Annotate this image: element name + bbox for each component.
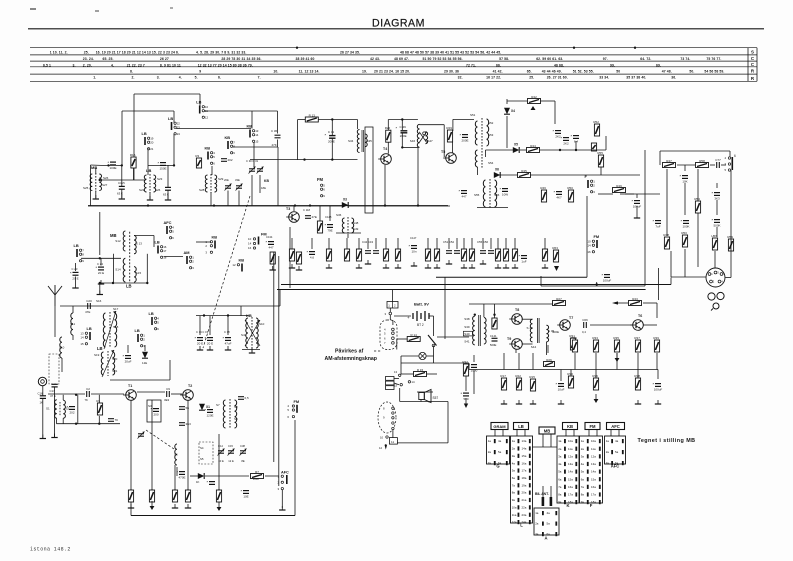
- ground: [495, 264, 501, 268]
- label box S40: [463, 331, 472, 336]
- coil S1: [55, 400, 57, 419]
- junction: [417, 204, 419, 206]
- wire: [176, 128, 251, 130]
- junction: [474, 314, 476, 316]
- svg-text:6a: 6a: [512, 476, 516, 480]
- svg-text:100uF: 100uF: [603, 279, 612, 283]
- wire: [187, 400, 189, 490]
- svg-text:5E: 5E: [186, 406, 190, 410]
- wire: [524, 430, 526, 437]
- svg-text:S9: S9: [234, 417, 238, 421]
- svg-text:C 118: C 118: [303, 208, 310, 212]
- resistor R11: [296, 252, 301, 264]
- resistor R21b: [317, 221, 322, 233]
- wire: [402, 146, 418, 148]
- diode X7: [142, 352, 148, 358]
- wire: [636, 206, 638, 214]
- svg-text:3a: 3a: [558, 454, 562, 458]
- svg-text:2a: 2a: [581, 447, 585, 451]
- wire: [656, 353, 658, 370]
- capacitor C160: [561, 136, 570, 141]
- svg-text:16: 16: [248, 246, 252, 250]
- wire: [658, 268, 660, 300]
- svg-text:5a: 5a: [615, 450, 619, 454]
- svg-text:447: 447: [268, 246, 273, 250]
- switch table header MB: [539, 427, 555, 434]
- svg-text:4. 5. 28. 29 30. 7 8 9. 31 32: 4. 5. 28. 29 30. 7 8 9. 31 32 33.: [196, 51, 246, 55]
- wire: [637, 353, 639, 370]
- svg-text:R3: R3: [195, 154, 199, 158]
- svg-text:LB: LB: [168, 116, 173, 121]
- wire: [54, 306, 56, 337]
- svg-text:R46: R46: [540, 186, 546, 190]
- ground: [383, 264, 389, 268]
- wire: [468, 363, 470, 370]
- svg-text:S27: S27: [102, 183, 108, 187]
- transistor T1: [123, 390, 136, 401]
- svg-text:99.: 99.: [610, 63, 615, 67]
- svg-text:54 56 58 59.: 54 56 58 59.: [704, 70, 724, 74]
- wire: [210, 192, 212, 206]
- svg-text:1a: 1a: [606, 439, 610, 443]
- wire: [730, 170, 732, 278]
- wire: [164, 256, 184, 258]
- junction: [173, 164, 175, 166]
- wire: [48, 393, 85, 395]
- capacitor C9: [167, 391, 170, 397]
- svg-text:2000: 2000: [253, 477, 259, 481]
- svg-text:C147: C147: [410, 236, 417, 240]
- svg-text:R50: R50: [567, 186, 573, 190]
- wire: [238, 191, 240, 206]
- pilot lamp: [419, 352, 426, 359]
- switch LB: [155, 240, 167, 260]
- ground: [434, 264, 440, 268]
- wire: [253, 142, 255, 167]
- svg-text:4a: 4a: [512, 461, 516, 465]
- capacitor C123: [70, 270, 79, 275]
- wire: [61, 358, 63, 372]
- svg-text:1a: 1a: [488, 439, 492, 443]
- wire: [81, 257, 121, 259]
- wire: [99, 283, 101, 294]
- wire: [251, 348, 253, 352]
- wire: [399, 388, 401, 402]
- coil: [99, 174, 101, 191]
- svg-text:G: G: [496, 464, 499, 469]
- svg-text:2a: 2a: [535, 522, 539, 526]
- wire: [54, 387, 56, 438]
- wire: [173, 134, 175, 165]
- resistor R38: [635, 378, 640, 390]
- resistor R3: [196, 158, 201, 168]
- svg-text:5a: 5a: [547, 522, 551, 526]
- wire: [196, 241, 211, 243]
- resistor R37: [635, 340, 640, 352]
- switch block L: [511, 436, 533, 523]
- svg-text:9a: 9a: [558, 500, 562, 504]
- wire: [542, 434, 544, 447]
- capacitor C52: [454, 251, 460, 254]
- svg-text:8. 9 81 10 11: 8. 9 81 10 11: [160, 63, 181, 67]
- svg-text:S25: S25: [83, 186, 89, 190]
- svg-text:16. 19 20 21 17 18 20 21 12 14: 16. 19 20 21 17 18 20 21 12 14 13 15. 22…: [96, 51, 179, 55]
- svg-text:S40: S40: [464, 332, 470, 336]
- svg-text:2.: 2.: [132, 76, 135, 80]
- coil: [144, 175, 146, 192]
- capacitor C51: [446, 251, 452, 254]
- svg-text:S54: S54: [488, 161, 494, 165]
- wire: [520, 149, 526, 151]
- svg-text:10a: 10a: [512, 505, 517, 509]
- junction: [227, 314, 229, 316]
- trimmer capacitor C130: [249, 167, 256, 174]
- junction: [384, 204, 386, 206]
- svg-text:C2: C2: [86, 387, 90, 391]
- wire: [657, 370, 659, 380]
- svg-text:S11: S11: [70, 322, 75, 326]
- wire: [397, 238, 399, 249]
- svg-text:T4: T4: [383, 147, 387, 151]
- ground: [469, 264, 475, 268]
- svg-text:S7: S7: [216, 403, 220, 407]
- resistor R45: [518, 173, 531, 178]
- switch KB: [205, 146, 216, 166]
- svg-text:79E: 79E: [327, 229, 332, 233]
- wire: [384, 165, 386, 206]
- svg-text:16a: 16a: [591, 485, 596, 489]
- resistor R21: [572, 340, 577, 352]
- svg-text:15: 15: [255, 140, 259, 144]
- svg-text:X4: X4: [511, 109, 515, 113]
- resistor R16: [131, 157, 136, 168]
- switch block AFC: [605, 436, 626, 464]
- svg-text:S55: S55: [474, 193, 480, 197]
- wire: [515, 349, 517, 353]
- svg-text:47uF: 47uF: [225, 342, 232, 346]
- ruling line: [30, 54, 757, 56]
- capacitor C77: [717, 162, 720, 168]
- wire: [595, 370, 597, 379]
- ground: [98, 280, 104, 284]
- svg-text:10W: 10W: [502, 193, 508, 197]
- contact 10: [386, 436, 388, 438]
- resistor R12: [512, 249, 517, 261]
- capacitor C124: [96, 265, 105, 270]
- wire: [514, 238, 516, 249]
- resistor R2: [128, 490, 133, 502]
- wire: [199, 94, 201, 106]
- capacitor C56: [488, 251, 494, 254]
- arrow: [554, 266, 559, 271]
- wire: [452, 119, 454, 131]
- svg-text:C 38: C 38: [224, 330, 230, 334]
- capacitor C176: [712, 218, 721, 223]
- svg-text:65. 25.: 65. 25.: [103, 57, 114, 61]
- wire: [400, 356, 402, 363]
- svg-text:73 74.: 73 74.: [680, 57, 690, 61]
- wire: [448, 238, 450, 249]
- coil S14: [123, 258, 125, 282]
- capacitor C2: [87, 391, 90, 397]
- junction: [401, 118, 403, 120]
- capacitor C19: [241, 489, 250, 494]
- coil S2: [63, 400, 65, 418]
- svg-text:7a: 7a: [581, 485, 585, 489]
- wire: [714, 251, 716, 268]
- resistor R10: [270, 252, 275, 264]
- svg-text:S46: S46: [410, 139, 416, 143]
- ground: [395, 264, 401, 268]
- svg-text:S56: S56: [494, 193, 500, 197]
- junction: [75, 423, 77, 425]
- transistor T8: [509, 314, 522, 325]
- wire: [600, 167, 602, 175]
- coil: [256, 318, 258, 348]
- wire: [121, 165, 123, 186]
- resistor R19: [344, 249, 349, 261]
- svg-text:S23: S23: [157, 177, 163, 181]
- coil S46: [417, 124, 419, 147]
- jack socket: [717, 292, 724, 299]
- svg-text:7K: 7K: [85, 398, 89, 402]
- svg-text:C 36: C 36: [271, 129, 277, 133]
- svg-text:KB: KB: [264, 179, 269, 183]
- tick: [634, 47, 636, 49]
- svg-text:5a: 5a: [581, 470, 585, 474]
- capacitor C85: [108, 160, 117, 165]
- svg-text:20 21 23 24. 16 15 20.: 20 21 23 24. 16 15 20.: [374, 70, 410, 74]
- svg-text:T9: T9: [507, 337, 511, 341]
- wire: [453, 118, 474, 120]
- dashed link: [203, 196, 250, 348]
- svg-text:200E: 200E: [400, 134, 407, 138]
- wire: [90, 165, 92, 206]
- resistor R25: [383, 249, 388, 261]
- capacitor C154: [459, 189, 468, 194]
- wire: [444, 277, 446, 339]
- detector transformer S51 S52 S53 S54: [475, 118, 488, 168]
- ground: [289, 264, 295, 268]
- svg-text:R7: R7: [255, 470, 259, 474]
- svg-text:S47: S47: [427, 139, 433, 143]
- switch KB: [205, 235, 217, 255]
- wire: [242, 349, 260, 351]
- junction: [107, 164, 109, 166]
- wire: [127, 345, 129, 353]
- svg-text:S 13: S 13: [136, 242, 143, 246]
- coil: [113, 352, 115, 375]
- svg-text:28 29 78 30 31 34 35 36.: 28 29 78 30 31 34 35 36.: [221, 57, 261, 61]
- wire: [347, 234, 349, 238]
- ground: [249, 349, 255, 353]
- wire: [506, 116, 508, 148]
- svg-text:AM: AM: [184, 250, 190, 255]
- coil S35: [365, 134, 367, 147]
- svg-text:R50: R50: [681, 231, 687, 235]
- wire: [146, 254, 148, 283]
- svg-text:S26: S26: [155, 188, 161, 192]
- svg-text:C 23: C 23: [72, 267, 78, 271]
- coil: [495, 180, 497, 207]
- svg-text:22a: 22a: [522, 505, 527, 509]
- svg-text:C20: C20: [86, 299, 92, 303]
- svg-text:9a: 9a: [581, 500, 585, 504]
- wire: [278, 256, 280, 486]
- wire: [670, 251, 672, 277]
- wire: [389, 315, 391, 320]
- switch LB: [74, 243, 85, 263]
- svg-text:1 10. 11. 2.: 1 10. 11. 2.: [50, 51, 68, 55]
- capacitor C70: [469, 363, 478, 368]
- svg-text:R29: R29: [446, 126, 452, 130]
- svg-text:47 48.: 47 48.: [662, 70, 672, 74]
- wire: [98, 395, 100, 403]
- wire: [516, 430, 518, 437]
- switch table header FM: [585, 423, 600, 430]
- svg-text:6.: 6.: [218, 76, 221, 80]
- svg-text:LB: LB: [126, 284, 132, 289]
- svg-text:LB: LB: [518, 424, 524, 429]
- coil: [246, 318, 248, 348]
- wire: [542, 486, 544, 497]
- wire: [637, 370, 639, 379]
- resistor R32: [463, 364, 468, 376]
- resistor R55: [598, 155, 603, 167]
- svg-text:2a: 2a: [558, 447, 562, 451]
- transistor T9: [509, 339, 522, 350]
- resistor R3b: [149, 490, 154, 502]
- ground arrow: [594, 394, 599, 403]
- ground: [461, 264, 467, 268]
- wire: [336, 232, 361, 234]
- wire: [277, 147, 279, 206]
- wire: [273, 252, 275, 462]
- coil: [223, 400, 225, 428]
- capacitor C147: [409, 244, 418, 249]
- svg-text:7a: 7a: [512, 483, 516, 487]
- svg-text:4a: 4a: [547, 511, 551, 515]
- svg-text:500E: 500E: [490, 343, 497, 347]
- svg-text:38 39 41 60: 38 39 41 60: [296, 57, 315, 61]
- wire: [596, 282, 598, 285]
- wire: [477, 167, 479, 175]
- switch table header KB: [563, 423, 578, 430]
- transistor T6: [630, 320, 643, 331]
- svg-text:0,4: 0,4: [582, 330, 586, 334]
- svg-text:L: L: [520, 523, 523, 528]
- wire: [420, 124, 445, 126]
- oscillator transformer S7 S8 S9: [223, 399, 236, 429]
- svg-text:20E: 20E: [224, 178, 229, 182]
- switch FM: [287, 399, 299, 419]
- svg-text:S35: S35: [367, 139, 373, 143]
- svg-text:19.: 19.: [362, 70, 367, 74]
- wire: [100, 258, 102, 265]
- output transformer S43 S44: [530, 318, 548, 343]
- svg-text:15a: 15a: [591, 477, 596, 481]
- svg-text:14: 14: [255, 133, 259, 137]
- wire: [358, 238, 360, 249]
- wire: [656, 303, 658, 318]
- svg-text:KB: KB: [247, 124, 253, 129]
- wire: [133, 94, 135, 180]
- svg-text:R52: R52: [593, 120, 599, 124]
- svg-text:FM: FM: [589, 424, 596, 429]
- junction: [331, 118, 333, 120]
- wire: [291, 238, 293, 249]
- resistor R26: [425, 249, 430, 261]
- svg-text:R48: R48: [663, 233, 669, 237]
- switch KB: [225, 135, 236, 155]
- capacitor C43: [373, 251, 379, 254]
- svg-text:65.: 65.: [527, 70, 532, 74]
- svg-text:24: 24: [177, 132, 181, 136]
- wire: [88, 205, 448, 207]
- wire: [716, 227, 718, 237]
- coil S38-41 secondary: [484, 318, 486, 345]
- resistor R1: [97, 403, 102, 415]
- capacitor C187: [602, 273, 611, 278]
- contact pin: [550, 497, 553, 506]
- capacitor C151: [554, 190, 563, 195]
- svg-text:S52: S52: [488, 121, 494, 125]
- svg-text:10: 10: [248, 237, 252, 241]
- junction: [596, 283, 598, 285]
- svg-text:DIAGRAM: DIAGRAM: [372, 18, 425, 30]
- terminal box 1 2: [387, 302, 398, 309]
- svg-text:4,6: 4,6: [310, 256, 315, 260]
- svg-text:20 E: 20 E: [98, 271, 104, 275]
- svg-text:50: 50: [616, 70, 620, 74]
- svg-text:R16: R16: [130, 153, 136, 157]
- wire: [507, 100, 527, 102]
- wire: [100, 179, 146, 181]
- svg-text:4a: 4a: [615, 439, 619, 443]
- DIN socket: [706, 268, 725, 287]
- capacitor C6: [108, 419, 114, 422]
- svg-text:6a: 6a: [581, 477, 585, 481]
- svg-text:2a: 2a: [512, 447, 516, 451]
- resistor R29: [447, 130, 452, 142]
- svg-text:S28: S28: [199, 188, 205, 192]
- svg-text:MB: MB: [110, 233, 117, 238]
- ground: [655, 400, 661, 404]
- capacitor C10: [179, 423, 185, 426]
- diode X6: [494, 172, 500, 178]
- wire: [573, 430, 575, 437]
- svg-text:R 14: R 14: [411, 333, 418, 337]
- wire: [400, 401, 448, 403]
- junction: [294, 204, 296, 206]
- svg-text:S29: S29: [218, 177, 224, 181]
- resistor R33: [593, 340, 598, 352]
- junction: [99, 257, 101, 259]
- band right border: [747, 48, 749, 82]
- resistor R39: [654, 340, 659, 352]
- svg-text:66.: 66.: [496, 63, 501, 67]
- wire: [211, 166, 213, 175]
- switch block K: [557, 436, 579, 503]
- capacitor C30b: [205, 336, 214, 341]
- svg-text:S4: S4: [200, 446, 204, 450]
- svg-text:S 43: S 43: [527, 326, 534, 330]
- wire: [91, 164, 102, 166]
- wire: [294, 420, 296, 516]
- wire: [176, 467, 178, 476]
- wire: [506, 99, 508, 104]
- svg-text:10a: 10a: [591, 439, 596, 443]
